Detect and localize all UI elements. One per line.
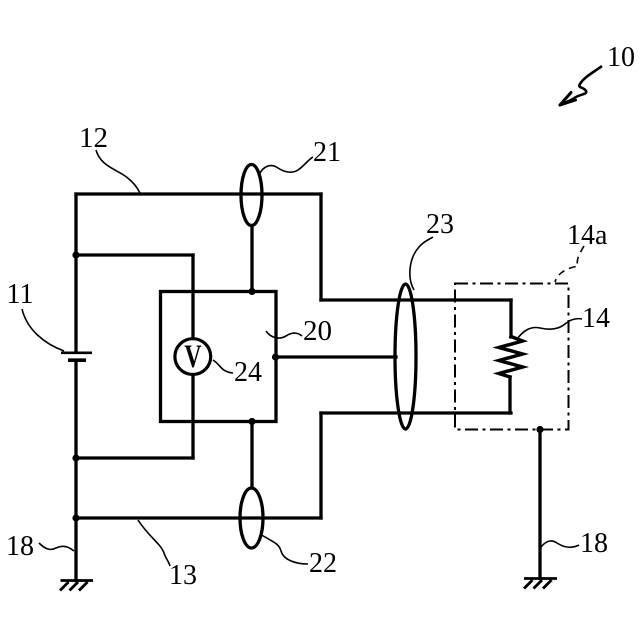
junction dot box top (248, 288, 255, 295)
ground 18 left (60, 581, 93, 591)
battery 11 top plate (61, 351, 92, 354)
svg-text:18: 18 (580, 528, 608, 559)
svg-text:18: 18 (6, 531, 34, 562)
wire upper feed horizontal (321, 298, 511, 301)
wire resistor bottom lead (508, 377, 511, 413)
ground 18 right (524, 579, 557, 589)
junction dot lower return (72, 454, 79, 461)
junction dot box bottom (248, 418, 255, 425)
leader label 13 (138, 520, 170, 566)
resistor 14 (499, 337, 523, 378)
wire box to core23 horizontal (276, 355, 396, 358)
wire node to voltmeter horizontal (76, 253, 193, 256)
svg-text:V: V (184, 338, 201, 375)
leader label 14a dashed (555, 246, 584, 282)
svg-text:14a: 14a (567, 220, 608, 251)
svg-text:22: 22 (309, 548, 337, 579)
arrow label 10 (562, 66, 602, 104)
junction dot wire 13 left (72, 514, 79, 521)
svg-text:24: 24 (234, 357, 262, 388)
svg-text:10: 10 (607, 42, 635, 73)
wire 13 bottom horizontal (76, 516, 321, 519)
wire box to core22 vertical (250, 422, 253, 489)
junction dot box right (272, 353, 279, 360)
svg-text:21: 21 (313, 137, 341, 168)
box 20 (161, 292, 277, 422)
svg-text:11: 11 (7, 279, 34, 310)
leader label 18 left (39, 543, 74, 551)
leader label 21 (259, 157, 313, 175)
wire left vertical upper (battery top) (74, 194, 77, 352)
wire resistor top lead (509, 300, 512, 337)
leader label 22 (260, 534, 308, 564)
enclosure 14a dash-dot box (455, 284, 569, 430)
wire voltmeter bottom vertical (191, 376, 194, 458)
wire right vertical upper (319, 194, 322, 300)
leader label 18 right (541, 541, 579, 547)
wire voltmeter top vertical (191, 255, 194, 337)
leader label 11 (22, 309, 64, 351)
junction dot enclosure bottom (536, 426, 543, 433)
wire lower feed horizontal (321, 411, 511, 414)
wire left vertical lower (battery to ground) (74, 362, 77, 581)
core 21 (241, 165, 262, 226)
core 22 (240, 488, 263, 548)
wire lower return horizontal (76, 456, 193, 459)
core 23 (395, 284, 416, 429)
leader label 20 (266, 331, 302, 338)
svg-text:12: 12 (79, 122, 108, 154)
svg-text:23: 23 (426, 209, 454, 240)
wire ground lead right (538, 430, 541, 579)
junction dot node 12/voltmeter (72, 251, 79, 258)
svg-text:14: 14 (582, 303, 610, 334)
svg-text:20: 20 (303, 315, 332, 347)
wire right vertical lower (319, 413, 322, 518)
wire 12 top horizontal (76, 192, 321, 195)
leader label 12 (96, 150, 140, 193)
arrowhead label 10 (560, 93, 576, 106)
svg-text:13: 13 (169, 560, 197, 591)
battery 11 bottom plate (68, 358, 86, 362)
voltmeter 24 circle (175, 339, 211, 375)
leader label 24 (213, 360, 233, 373)
leader label 23 (410, 237, 433, 290)
leader label 14 (517, 319, 582, 339)
wire core21 to box vertical (250, 226, 253, 292)
